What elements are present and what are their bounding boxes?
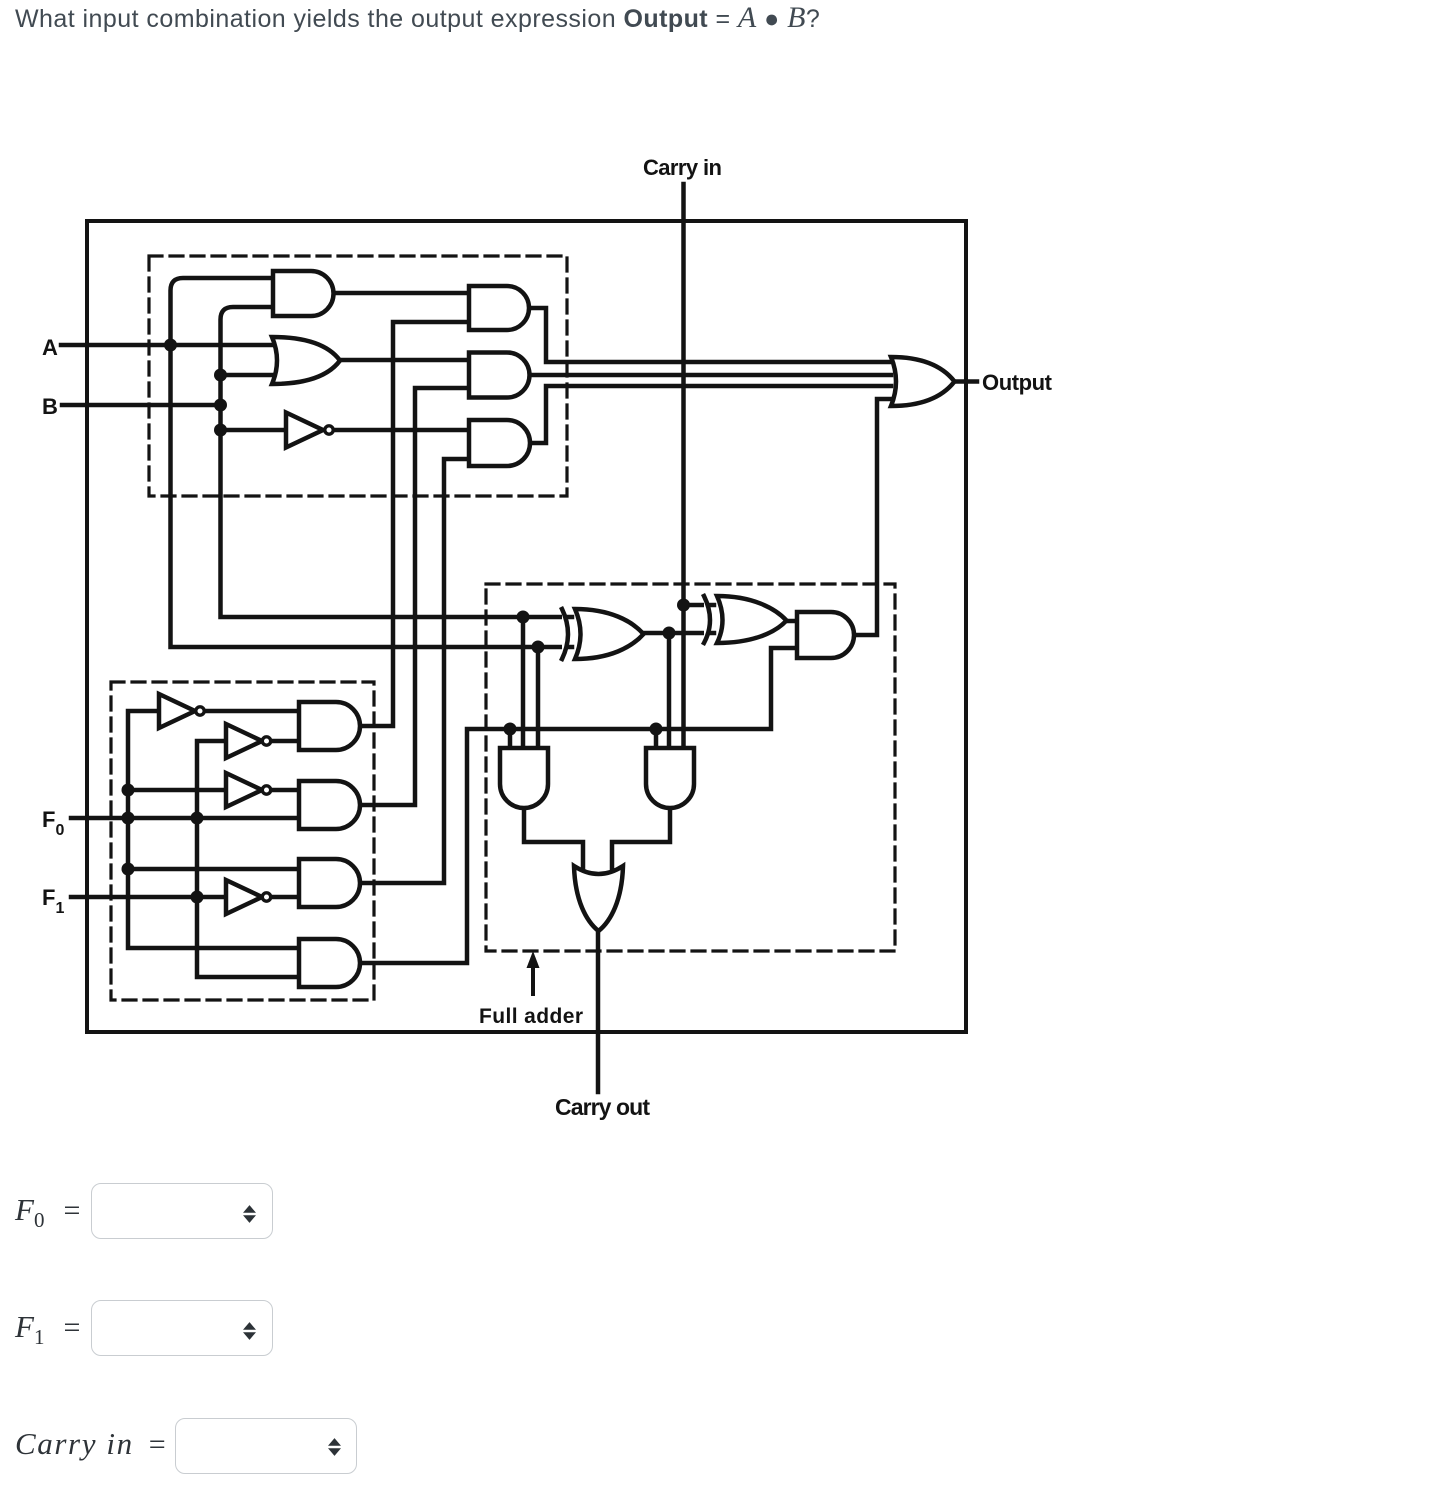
wire: decoder AND9 output up to AND6 lower input (360, 459, 469, 883)
select F0 (91, 1183, 273, 1239)
OR gate OR3 (carry out) (574, 866, 623, 931)
wire: F0 vertical branch to inverters and AND9 AND10 (128, 711, 299, 948)
decoder inverter NOT5 (226, 880, 262, 914)
XOR gate XOR1 input arc (562, 609, 568, 659)
decoder dashed box (111, 682, 374, 1000)
wire: AND5 output bus to output OR (529, 373, 891, 378)
XOR gate XOR2 body (717, 596, 787, 643)
inverter NOT1 (NOT B) (286, 413, 323, 448)
wire: OR1 output to AND5 top input (339, 358, 469, 363)
AND gate AND4 (enable AND gate) (469, 286, 529, 330)
wire: inverter2 output (273, 739, 299, 744)
output OR gate OR2 (891, 357, 955, 406)
node: F1 junction (191, 891, 204, 904)
wire: B branch to AND1 bottom and XOR1 upper input (221, 307, 573, 617)
outer box (87, 221, 966, 1032)
wire: AND12 output to carry OR (612, 808, 670, 872)
node: F0 crossing junction (191, 812, 204, 825)
wire: branch to AND9 top input (128, 867, 299, 872)
wire: decoder AND7 output up to AND4 lower input (360, 322, 469, 726)
select Carry in (175, 1418, 357, 1474)
wire: output OR to Output label (954, 379, 977, 384)
wire: input A (61, 343, 280, 348)
svg-text:F: F (42, 885, 55, 910)
wire: AND11 output to carry OR (524, 808, 583, 872)
question text (15, 1, 820, 35)
wire: XOR1 bottom line stub down to AND11 (536, 647, 541, 748)
AND gate AND5 (enable OR gate) (469, 353, 530, 398)
wire: A branch to AND1 top and XOR1 lower input (171, 278, 573, 647)
wire: XOR1 output stub down to AND12 (667, 633, 672, 748)
OR gate OR1 (A OR B) (272, 337, 340, 384)
wire: XOR1 top line stub down to AND11 (521, 617, 526, 748)
wire: AND13 sum output up to output OR (854, 399, 891, 635)
svg-text:Full adder: Full adder (479, 1005, 583, 1028)
decoder AND gate AND8 (299, 781, 360, 829)
decoder AND gate AND10 (299, 939, 360, 987)
wire: input F0 (71, 816, 299, 821)
node: enable to AND12 (650, 723, 663, 736)
node: B junction (214, 399, 227, 412)
arrow to full adder box (531, 964, 535, 996)
node: B to NOT1 (214, 424, 227, 437)
node: B to OR1 (214, 369, 227, 382)
wire: XOR2 output to AND13 input (786, 619, 797, 624)
node: A line to AND11 (517, 611, 530, 624)
svg-text:1: 1 (56, 900, 65, 917)
select F1 (91, 1300, 273, 1356)
decoder AND gate AND9 (299, 859, 360, 907)
wire: inverter output to AND6 top input (336, 428, 470, 433)
node: F0 to AND9 (122, 863, 135, 876)
svg-text:A: A (42, 335, 58, 360)
wire: input B (62, 403, 221, 408)
svg-text:Output: Output (982, 370, 1053, 395)
node: F0 to NOT4 (122, 784, 135, 797)
decoder inverter NOT2 (159, 694, 195, 728)
AND gate AND11 (carry product 1) (500, 748, 548, 808)
decoder AND gate AND7 (299, 702, 360, 750)
svg-text:Carry out: Carry out (555, 1094, 650, 1120)
answer row F1 (15, 1309, 80, 1350)
wire: AND4 output bus to output OR (529, 308, 891, 362)
node: enable to AND11 (504, 723, 517, 736)
wire: vertical branch to inverter2 and AND10 lower input (197, 741, 299, 977)
wire: B stub to inverter input (221, 428, 287, 433)
node: F0 junction (122, 812, 135, 825)
wire: branch to inverter3 input (128, 788, 226, 793)
decoder inverter NOT4 (226, 773, 262, 807)
XOR gate XOR1 body (575, 609, 644, 659)
wire: decoder AND8 output up to AND5 lower input (360, 388, 469, 805)
svg-text:0: 0 (56, 822, 65, 839)
wire: carry out (596, 931, 601, 1092)
AND gate AND1 (A AND B) (273, 271, 334, 316)
wire: XOR1 output to XOR2 lower input (643, 631, 714, 636)
answer row Carry in (15, 1426, 166, 1462)
wire: inverter4 output (273, 895, 299, 900)
wire: input F1 (71, 895, 226, 900)
wire: enable stub into AND11 (508, 729, 513, 748)
XOR gate XOR2 input arc (704, 596, 710, 643)
wire: inverter3 output (273, 788, 299, 793)
svg-text:Carry in: Carry in (643, 155, 722, 180)
decoder inverter NOT3 (226, 724, 262, 758)
AND gate AND12 (carry product 2) (646, 748, 694, 808)
node: carry in to XOR2 (677, 599, 690, 612)
wire: AND6 output bus to output OR (530, 386, 891, 443)
svg-text:B: B (42, 394, 58, 419)
full adder dashed box (486, 584, 895, 951)
node: B line to AND11 (532, 641, 545, 654)
wire: enable stub into AND12 (654, 729, 659, 748)
wire: AND1 output to AND4 top input (333, 291, 469, 296)
node: XOR1 out junction (663, 627, 676, 640)
svg-text:F: F (42, 807, 55, 832)
wire: carry in vertical (681, 184, 686, 748)
wire: carry in branch to XOR2 top input (684, 603, 715, 608)
wire: B stub to OR1 lower input (221, 373, 281, 378)
logical unit dashed box (149, 256, 567, 496)
node: A junction (164, 339, 177, 352)
answer row F0 (15, 1192, 80, 1233)
wire: inverter1 output (206, 709, 299, 714)
AND gate AND6 (enable NOT gate) (469, 420, 530, 466)
wire: decoder AND10 enable line to full adder gates (360, 648, 797, 963)
AND gate AND13 (sum enable) (797, 612, 854, 658)
